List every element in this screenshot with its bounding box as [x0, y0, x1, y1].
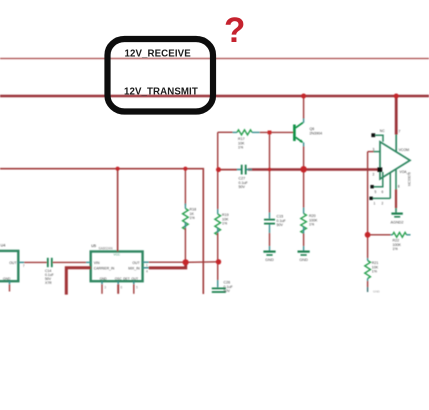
wire plus-input branch down: [367, 152, 369, 258]
svg-text:1%: 1%: [222, 222, 228, 226]
label Q6: [310, 127, 323, 136]
wire U5 out thin: [149, 261, 186, 263]
svg-text:MIX_IN: MIX_IN: [128, 266, 140, 270]
svg-text:GND: GND: [265, 258, 274, 262]
label R18: [190, 208, 197, 221]
wire plus input: [368, 151, 374, 153]
wire U4 out stub: [18, 261, 24, 263]
svg-text:6: 6: [382, 190, 384, 194]
capacitor C15: [264, 213, 275, 234]
svg-text:GND: GND: [3, 277, 11, 281]
svg-text:1%: 1%: [238, 146, 244, 150]
wire mid rail left segment: [219, 169, 238, 171]
svg-text:VIN: VIN: [94, 261, 100, 265]
annotation rounded rectangle: [108, 39, 214, 112]
wire collector to rail: [303, 96, 305, 118]
svg-text:SA602AN: SA602AN: [99, 246, 114, 250]
wire comp stub B: [371, 197, 390, 199]
label R21: [372, 261, 379, 274]
svg-text:50V: 50V: [277, 223, 284, 227]
capacitor C14: [48, 258, 52, 267]
label R19: [222, 213, 229, 226]
wire 12V_TRANSMIT rail: [0, 95, 429, 98]
svg-text:50V: 50V: [239, 185, 246, 189]
svg-text:50V: 50V: [224, 289, 231, 293]
label C15: [277, 215, 287, 228]
junction dot R21 node: [365, 232, 371, 238]
label R22: [393, 239, 402, 252]
svg-text:X7R: X7R: [45, 281, 52, 285]
label C27: [239, 177, 249, 190]
wire NC to triangle: [375, 135, 383, 142]
svg-text:OSC: OSC: [115, 277, 123, 281]
svg-text:?: ?: [224, 11, 245, 50]
svg-text:6: 6: [398, 185, 400, 189]
wire vertical branch x218 top corner: [217, 132, 219, 209]
wire emitter branch down: [303, 169, 305, 207]
resistor R22: [391, 232, 411, 237]
junction dot vcc branch: [116, 167, 120, 171]
wire left mid rail: [0, 169, 203, 294]
IC U5 box: [91, 252, 143, 282]
wire R17 to base: [260, 131, 294, 133]
svg-text:1%: 1%: [393, 247, 399, 251]
svg-text:1%: 1%: [190, 216, 196, 220]
svg-text:1: 1: [374, 201, 376, 205]
svg-text:12V_RECEIVE: 12V_RECEIVE: [125, 49, 192, 60]
junction dot R18 branch: [183, 167, 187, 171]
svg-text:OUT: OUT: [9, 261, 17, 265]
svg-text:5: 5: [375, 190, 377, 194]
svg-text:VCOM: VCOM: [399, 148, 410, 152]
wire U5 mix thick: [149, 262, 186, 268]
wire comp stub A: [372, 186, 384, 188]
svg-text:2: 2: [373, 173, 375, 177]
junction dot emitter mid rail: [300, 166, 307, 173]
svg-text:GND: GND: [373, 290, 381, 294]
svg-text:12V_TRANSMIT: 12V_TRANSMIT: [124, 86, 198, 97]
wire vertical R18 branch bottom: [184, 228, 186, 262]
svg-text:VCC: VCC: [114, 253, 121, 257]
svg-text:5: 5: [136, 285, 138, 289]
junction dot x218 mid rail: [216, 167, 221, 172]
wire C14 to U5: [53, 261, 86, 263]
wire U5 bottom stubs: [102, 281, 134, 294]
node minus input square: [377, 167, 382, 172]
wire U5 vcc from rail: [117, 169, 119, 252]
resistor R21: [365, 258, 371, 281]
wire x218 corner to R17: [218, 131, 233, 133]
wire U5 left stubs: [86, 261, 91, 263]
junction dot base branch: [268, 131, 272, 135]
svg-text:3: 3: [104, 285, 106, 289]
svg-text:GND: GND: [100, 277, 108, 281]
ground GND under C15: [263, 252, 275, 262]
svg-text:AGND2: AGND2: [390, 221, 403, 225]
svg-text:1%: 1%: [309, 223, 315, 227]
wire vertical to U5 pin 8: [117, 169, 119, 252]
wire C15 to ground: [269, 233, 271, 246]
svg-text:1%: 1%: [372, 270, 378, 274]
svg-text:U4: U4: [1, 244, 6, 248]
wire R21 bottom: [367, 281, 369, 287]
wire output down: [395, 170, 397, 190]
node NC square top-left: [371, 133, 375, 137]
label C26: [224, 281, 234, 294]
svg-text:MC33078: MC33078: [408, 172, 412, 186]
IC U4 box partial: [0, 251, 18, 281]
ground GND under R20: [298, 252, 310, 262]
wire R22 branch: [368, 234, 391, 236]
wire R20 to ground: [303, 234, 305, 247]
svg-text:DET_OUT: DET_OUT: [123, 277, 138, 281]
wire mid rail right segment: [248, 168, 380, 171]
resistor R20: [301, 208, 307, 234]
junction dot vplus rail: [394, 94, 399, 99]
svg-text:6: 6: [121, 285, 123, 289]
svg-text:CARRIER_IN: CARRIER_IN: [94, 266, 115, 270]
label C14: [45, 269, 54, 285]
wire U4 gnd stub: [9, 281, 11, 284]
wire 12V_RECEIVE rail: [0, 58, 429, 60]
label R20: [309, 214, 318, 227]
label R17: [238, 137, 245, 150]
wire vertical branch x218 lower: [217, 233, 219, 280]
svg-text:U5: U5: [91, 244, 96, 248]
resistor R17: [233, 130, 260, 135]
junction dot cross: [268, 168, 271, 171]
svg-text:2: 2: [382, 201, 384, 205]
junction dot x218 low: [216, 259, 221, 264]
svg-text:Q6: Q6: [310, 127, 315, 131]
svg-text:GND: GND: [299, 258, 308, 262]
wire vertical R18 branch top: [184, 169, 186, 205]
svg-text:4: 4: [146, 269, 148, 273]
svg-text:NC: NC: [380, 129, 385, 133]
transistor Q6: [294, 118, 303, 147]
wire U5 right stubs: [143, 261, 149, 263]
junction dot collector rail: [301, 94, 306, 99]
svg-text:7: 7: [23, 264, 25, 268]
svg-text:7: 7: [398, 130, 400, 134]
wire vertical x269: [269, 132, 271, 212]
junction dot U5 out node: [183, 259, 189, 265]
svg-text:OUT: OUT: [132, 261, 139, 265]
wire U4 out to C14: [24, 261, 47, 263]
op-amp U6 triangle: [380, 142, 410, 179]
svg-text:1: 1: [146, 263, 148, 267]
node stub B square: [369, 197, 372, 200]
wire feedback vertical left: [382, 172, 384, 187]
ground AGND2: [390, 214, 403, 225]
node stub A square: [370, 185, 373, 188]
wire junction to junction: [186, 261, 219, 264]
capacitor C27: [237, 165, 252, 175]
wire emitter to mid rail: [303, 146, 305, 169]
svg-text:3: 3: [373, 147, 375, 151]
resistor R18: [183, 204, 189, 230]
resistor R19: [215, 209, 221, 235]
svg-text:2N3904: 2N3904: [310, 132, 323, 136]
capacitor C26: [212, 280, 226, 292]
wire carrier thick L: [66, 268, 90, 295]
wire feedback vertical right: [389, 173, 391, 199]
wire op-amp V+ from rail: [395, 96, 398, 135]
